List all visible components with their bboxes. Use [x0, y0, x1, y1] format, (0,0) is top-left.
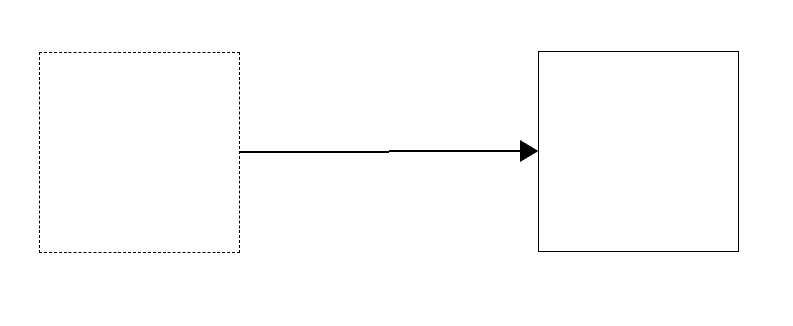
wire (arrow shaft left segment) — [239, 151, 389, 153]
solid box — [539, 52, 739, 252]
wire (arrow shaft right segment) — [389, 150, 521, 152]
arrowhead — [520, 140, 539, 162]
dashed box — [39, 52, 240, 253]
